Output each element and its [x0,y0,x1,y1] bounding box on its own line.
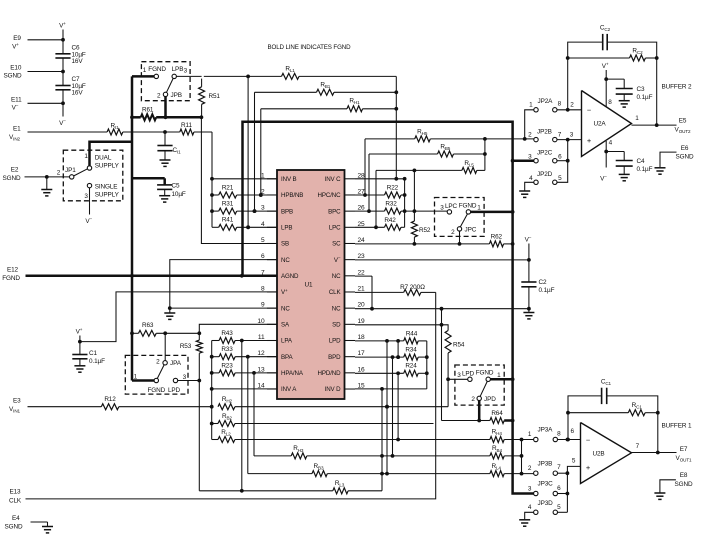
svg-text:INV B: INV B [281,176,297,183]
jumper JPB dashed box [141,62,190,101]
wire RH1 vertical to pin2 [260,109,262,195]
ground NC [164,312,175,314]
wire R54 down JPD3 [447,353,449,407]
wire RL4 row [387,473,490,475]
svg-text:2: 2 [261,188,265,195]
capacitor CC1 [568,396,602,413]
wire pin19 SD row [355,324,442,326]
wire RBL5 bus up [484,139,486,171]
svg-text:HPD/ND: HPD/ND [318,370,342,377]
svg-text:LPB: LPB [281,225,292,232]
wire E12 AGND row bold [26,275,278,278]
ground E6 [655,167,666,169]
svg-text:R42: R42 [384,217,396,224]
svg-text:3: 3 [183,374,187,381]
wire R53 to LPD net [198,353,200,491]
svg-text:R44: R44 [406,330,418,337]
wire E1 row [28,131,108,133]
svg-text:E5: E5 [679,118,687,125]
jumper JPB lever [167,79,174,93]
svg-text:22: 22 [358,269,366,276]
svg-text:16V: 16V [72,58,84,65]
capacitor C2 [521,281,536,283]
svg-text:16V: 16V [72,90,84,97]
svg-text:23: 23 [358,253,366,260]
svg-text:NC: NC [281,305,290,312]
svg-text:2: 2 [451,229,455,236]
resistor R54 [442,325,449,331]
jumper JP2D pins [534,180,538,184]
jumper JP2B pins [534,137,538,141]
svg-text:E9: E9 [13,35,21,42]
svg-text:HPC/NC: HPC/NC [318,192,342,199]
svg-text:7: 7 [261,269,265,276]
svg-text:C2: C2 [539,279,547,286]
svg-text:4: 4 [528,504,532,511]
jumper JPC lever [460,214,467,227]
svg-text:FGND: FGND [147,387,165,394]
svg-text:R22: R22 [387,185,399,192]
svg-text:7: 7 [558,132,562,139]
svg-text:+: + [586,463,591,472]
svg-text:JP1: JP1 [65,167,76,174]
resistor RC1 row [568,412,628,414]
op-amp U2A triangle [582,91,632,157]
wire INVD right bus2 [426,341,428,389]
svg-text:E8: E8 [680,472,688,479]
svg-text:6: 6 [570,428,574,435]
svg-text:5: 5 [572,458,576,465]
wire JPC pin2 down [459,231,461,244]
svg-text:2: 2 [157,93,161,100]
svg-text:JP3B: JP3B [538,461,553,468]
wire RH5 row [365,138,415,140]
wire LPD vert [386,341,388,474]
svg-text:JP2B: JP2B [537,128,552,135]
wire pin22 NC down [355,275,372,277]
svg-text:2: 2 [57,170,61,177]
svg-text:INV A: INV A [281,386,297,393]
wire JP2A pin1 down [525,110,534,140]
svg-text:CLK: CLK [9,498,22,505]
svg-text:2: 2 [156,359,160,366]
ground C4 [619,173,630,175]
wire U2A output [632,124,677,126]
resistor R43 [212,340,219,342]
svg-text:4: 4 [609,140,613,147]
resistor R33 [212,356,219,358]
svg-text:U2B: U2B [592,451,604,458]
svg-text:R43: R43 [221,330,233,337]
wire U2A V- pin4 [605,141,607,168]
wire JPA pin1 bold [132,379,154,382]
svg-text:JPC: JPC [465,227,477,234]
svg-text:2: 2 [528,465,532,472]
wire FGND stub JPB1 [132,75,154,78]
svg-text:FGND: FGND [476,370,494,377]
wire JP2C pin6 stub [557,160,568,162]
jumper JPA pins [163,361,167,365]
wire JP2A pin8 row [557,109,582,111]
wire INVA bus [211,341,213,440]
svg-text:R12: R12 [104,396,116,403]
wire JP3C pin6 stub [558,493,568,495]
wire JP3D pin4 gnd [525,512,534,519]
wire RL5 vert pin25 [375,170,377,227]
svg-text:BPC: BPC [328,208,341,215]
wire JP3A pin8 row [558,439,581,441]
wire rows1920 bus [441,309,443,421]
jumper JPB pins [154,74,158,78]
wire SB pin5 [201,117,277,243]
svg-text:SGND: SGND [675,481,693,488]
svg-text:8: 8 [608,99,612,106]
wire U2A out fb [656,58,658,125]
resistor RH1 [347,106,363,112]
wire JP3D pin5 stub [558,511,568,513]
resistor R52 [413,170,415,221]
svg-text:U1: U1 [305,282,313,289]
svg-text:C3: C3 [637,86,645,93]
jumper JPA dashed box [125,355,188,394]
resistor R64 [490,418,504,424]
svg-text:JP3D: JP3D [538,500,554,507]
svg-text:R41: R41 [222,217,234,224]
wire pin16 row [355,372,404,374]
svg-text:SA: SA [281,322,290,329]
svg-text:C5: C5 [172,183,180,190]
resistor RL2 [212,439,218,441]
svg-text:0.1µF: 0.1µF [637,94,653,101]
wire pin1 row [212,178,277,180]
wire E6 stub [660,152,677,167]
svg-text:SGND: SGND [676,154,694,161]
ground C2 [523,312,534,314]
capacitor C4 [606,151,624,153]
svg-text:LPB: LPB [172,66,184,73]
svg-text:JP2C: JP2C [537,150,553,157]
capacitor C1 [72,354,87,356]
svg-text:SB: SB [281,241,289,248]
svg-text:0.1µF: 0.1µF [539,287,555,294]
wire U2B minus fb [567,413,569,440]
svg-text:E13: E13 [9,489,21,496]
svg-text:NC: NC [332,273,341,280]
wire JP2C pin3 bold stub [513,159,534,162]
svg-text:R23: R23 [221,362,233,369]
resistor RB3 [248,473,312,475]
svg-text:FGND: FGND [148,66,166,73]
wire pin14 row [212,388,277,390]
ground E8 [654,492,665,494]
svg-text:R64: R64 [491,410,503,417]
jumper JP2C pins [534,159,538,163]
capacitor CI1 [163,130,167,134]
svg-text:18: 18 [358,334,366,341]
ground E2 [45,175,49,179]
svg-text:JP2A: JP2A [538,98,554,105]
svg-text:1: 1 [143,67,147,74]
svg-text:1: 1 [84,153,88,160]
svg-text:BUFFER 1: BUFFER 1 [662,423,692,430]
svg-text:HPA/NA: HPA/NA [281,370,304,377]
resistor R44 [404,338,418,344]
svg-text:LPD: LPD [168,387,181,394]
jumper JPD lever [480,382,487,397]
svg-text:1: 1 [635,115,639,122]
wire pin16 HPD down [397,373,399,439]
svg-text:R61: R61 [142,107,154,114]
svg-text:JP3C: JP3C [538,481,554,488]
resistor RB1 [317,89,334,95]
wire JPB pin3 to RL1 row [176,75,201,77]
wire RH2 corner up [447,406,449,408]
resistor RC2 row [568,57,630,59]
resistor R61 bold row [132,116,141,119]
wire U2B output [632,452,677,454]
ground JP2D [519,190,530,192]
svg-text:1: 1 [261,172,265,179]
resistor RC1 [628,410,645,416]
op-amp U1 LTC filter IC [277,170,345,399]
svg-text:13: 13 [257,366,265,373]
wire INVC bus [404,179,406,228]
jumper JP3A pins [534,437,538,441]
svg-text:0.1µF: 0.1µF [89,358,105,365]
svg-text:C1: C1 [89,350,97,357]
svg-text:−: − [587,106,592,115]
resistor RL3 [199,490,332,492]
svg-text:R62: R62 [491,234,503,241]
wire U2A minus fb [567,58,569,110]
svg-text:INV D: INV D [325,386,342,393]
jumper JP3D pins [534,510,538,514]
svg-text:12: 12 [257,350,265,357]
resistor RI1 [107,129,123,135]
svg-text:4: 4 [529,175,533,182]
svg-text:JPA: JPA [170,360,182,367]
resistor RB5 [438,151,454,157]
svg-text:E3: E3 [13,398,21,405]
svg-text:3: 3 [457,372,461,379]
resistor RH4 [490,437,504,443]
resistor R41 [212,226,219,228]
svg-text:28: 28 [358,172,366,179]
svg-text:JP2D: JP2D [537,171,553,178]
svg-text:C4: C4 [637,158,645,165]
resistor R24 [404,370,418,376]
svg-text:LPC: LPC [329,225,341,232]
wire E8 stub [660,480,676,493]
jumper JP1 pins [87,166,91,170]
resistor R23 [212,372,219,374]
svg-text:R53: R53 [180,343,192,350]
svg-text:3: 3 [528,486,532,493]
svg-text:CLK: CLK [329,289,342,296]
wire RL1 row [204,75,282,77]
wire FGND bold vertical [131,76,134,380]
wire RB5 row [369,153,438,155]
ground C5 [159,195,170,197]
ground C3 [619,100,630,102]
svg-text:0.1µF: 0.1µF [637,166,653,173]
ground E4 [42,526,53,528]
svg-text:1: 1 [529,102,533,109]
svg-text:17: 17 [358,350,366,357]
wire FGND top row bold [243,122,534,494]
svg-text:3: 3 [261,205,265,212]
wire pin24 SC row [355,243,489,245]
resistor R22 [355,194,385,196]
svg-text:R51: R51 [209,93,221,100]
jumper JP3B pins [534,471,538,475]
svg-text:SUPPLY: SUPPLY [95,192,120,199]
svg-text:BPA: BPA [281,354,294,361]
svg-text:SGND: SGND [5,524,23,531]
svg-text:1: 1 [497,372,501,379]
wire JPD pin1 bold [490,378,512,381]
svg-text:R21: R21 [222,185,234,192]
wire JPA pin2 [164,333,166,360]
resistor RB4 [490,453,504,459]
wire pin18 row [355,340,404,342]
svg-text:3: 3 [440,205,444,212]
jumper JP3C pins [534,491,538,495]
wire JP2D pin5 stub [557,140,568,183]
ground C1 [74,365,85,367]
wire RB5 vert pin26 [368,154,370,211]
resistor R34 [404,354,418,360]
svg-text:E2: E2 [11,167,19,174]
resistor R42 [355,226,385,228]
svg-text:R52: R52 [419,227,431,234]
wire pin23 V- row [355,259,529,261]
svg-text:E7: E7 [680,446,688,453]
svg-text:3: 3 [570,132,574,139]
svg-text:R24: R24 [405,363,417,370]
wire INVD right bus [381,389,383,491]
svg-text:SC: SC [332,241,341,248]
wire pin8 V+ branch [80,292,277,342]
wire RB4 row [393,455,490,457]
svg-text:SGND: SGND [3,175,21,182]
wire E3 row [28,406,102,408]
capacitor C6 [55,53,70,55]
jumper JPA lever [157,365,164,379]
svg-text:FGND: FGND [459,203,477,210]
wire pin10 SA [199,324,277,333]
wire BPD vert [392,357,394,456]
capacitor C7 [55,85,70,87]
resistor R11 [180,129,194,135]
wire pin21 R7 row [355,291,404,293]
svg-text:HPB/NB: HPB/NB [281,192,303,199]
jumper JPD pins [468,377,472,381]
svg-text:R7 200Ω: R7 200Ω [400,284,425,291]
resistor R63 row [132,332,139,334]
jumper JP1 lever [74,169,88,176]
wire JP3B pin7 stub [558,472,568,474]
svg-text:5: 5 [261,237,265,244]
svg-text:19: 19 [358,318,366,325]
resistor R53 [198,333,200,340]
svg-text:JP3A: JP3A [538,427,554,434]
svg-text:E10: E10 [10,65,22,72]
jumper JPC dashed box [435,198,485,237]
wire HPD vert [397,341,399,357]
wire RLBH1 bus to INVC [395,76,397,178]
svg-text:DUAL: DUAL [95,155,112,162]
svg-text:BPB: BPB [281,208,293,215]
svg-text:E4: E4 [12,515,20,522]
svg-text:20: 20 [358,302,366,309]
wire JPA pin3 [178,380,200,382]
resistor RH3 [254,455,291,457]
resistor R12 [101,404,118,410]
svg-text:8: 8 [557,431,561,438]
wire U2B out fb [657,413,659,453]
svg-text:2: 2 [471,396,475,403]
op-amp U2B triangle [581,423,632,484]
wire U2B plus chain [567,466,580,512]
svg-text:LPA: LPA [281,338,293,345]
svg-text:LPD: LPD [329,338,341,345]
svg-text:SGND: SGND [4,73,22,80]
resistor RC2 [630,55,646,61]
svg-text:R63: R63 [142,322,154,329]
svg-text:6: 6 [558,154,562,161]
svg-text:R54: R54 [453,342,465,349]
svg-text:1: 1 [528,431,532,438]
svg-text:25: 25 [358,221,366,228]
svg-text:SUPPLY: SUPPLY [95,163,120,170]
svg-text:R11: R11 [181,122,192,129]
resistor RL5 [462,167,477,173]
wire JP2D pin4 gnd [525,182,534,190]
wire NC pins 6-9 ground [170,260,277,309]
wire pin20 row to C2 gnd [355,308,529,310]
resistor R7 200 [404,289,421,295]
wire RL1 vertical to pin4 [247,76,249,227]
ground CI1 [160,159,171,161]
wire JP3 left bus [521,440,523,474]
jumper JP2A pins [534,108,538,112]
svg-text:R34: R34 [405,347,417,354]
svg-text:FGND: FGND [2,275,20,282]
wire JP2B pin7 row [557,139,582,141]
svg-text:16: 16 [358,366,366,373]
jumper JPC pins [447,210,451,214]
svg-text:7: 7 [636,443,640,450]
svg-text:JPB: JPB [171,92,182,99]
resistor RH2 [218,404,235,410]
svg-text:BUFFER 2: BUFFER 2 [662,84,692,91]
capacitor CC2 [568,42,603,58]
wire JPC pin1 bold [471,211,513,214]
resistor RB2 [212,423,218,425]
svg-text:AGND: AGND [281,273,299,280]
svg-text:BPD: BPD [328,354,341,361]
svg-text:R33: R33 [221,346,233,353]
svg-text:10µF: 10µF [172,191,186,198]
svg-text:E1: E1 [13,126,21,133]
ground JP3D [519,519,530,521]
svg-text:3: 3 [184,68,188,75]
resistor R31 [212,210,219,212]
svg-text:3: 3 [84,193,88,200]
wire RL5 row [376,169,462,171]
wire JP1 pin1 bold to FGND [90,142,133,166]
